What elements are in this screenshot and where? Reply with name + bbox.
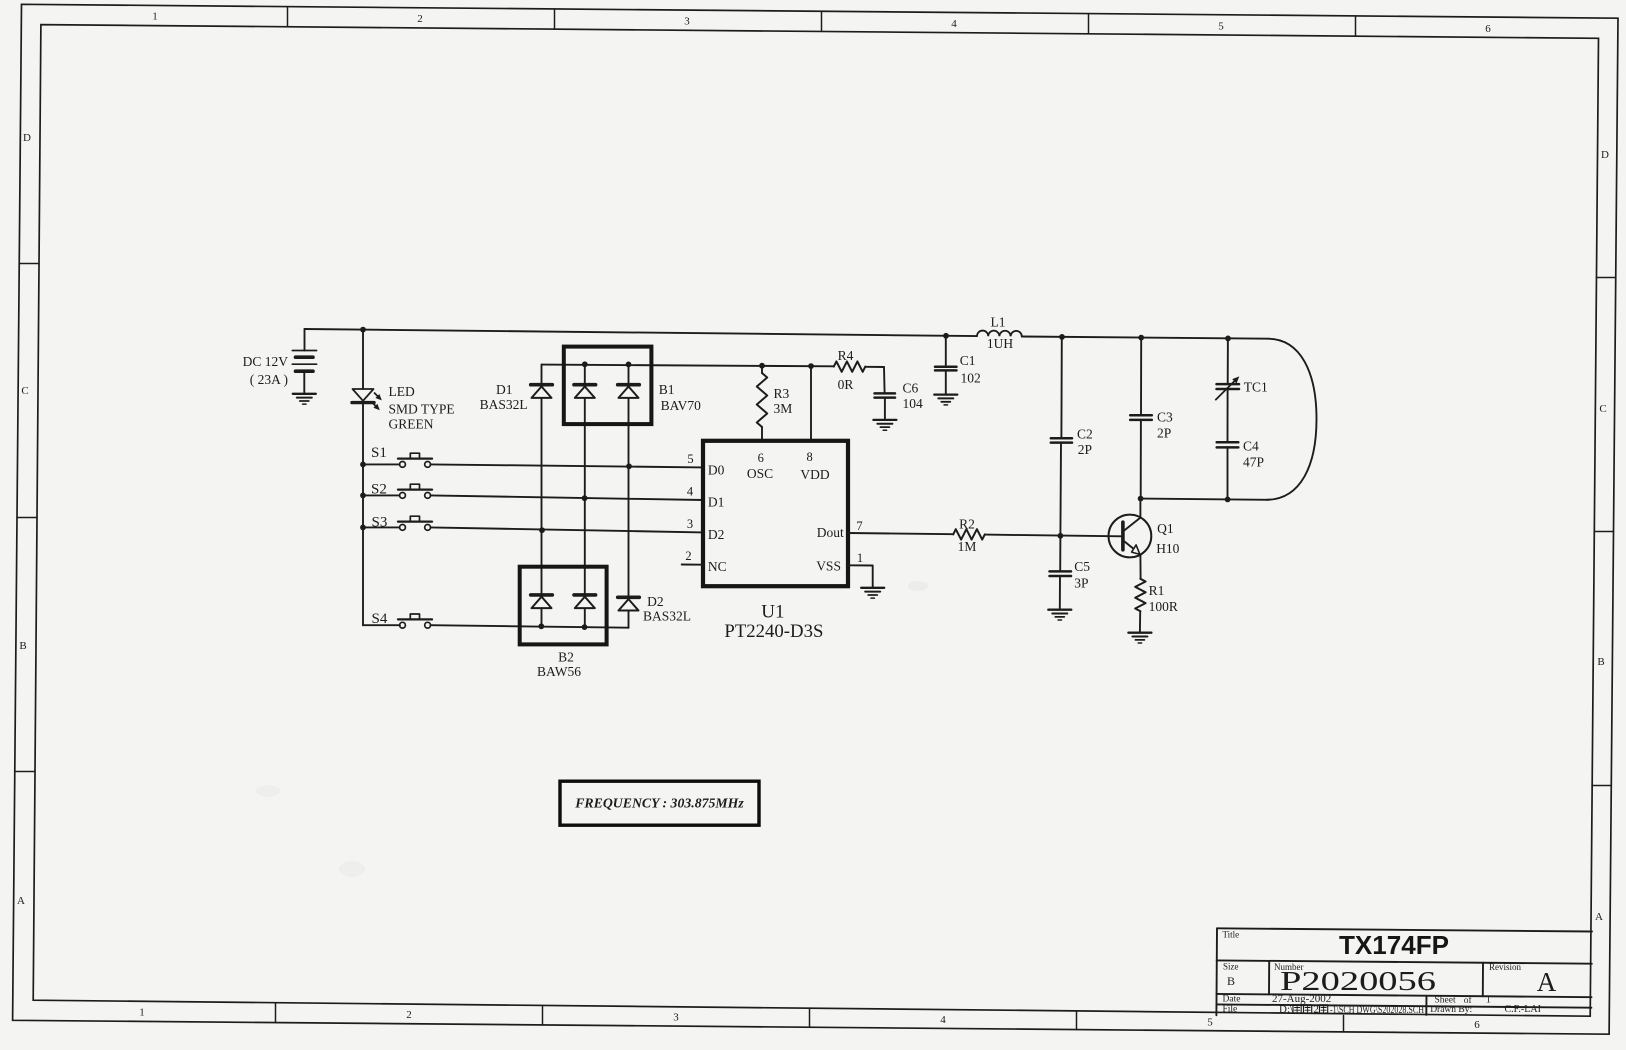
wire C2 top — [1060, 337, 1062, 438]
node S1 column junction — [626, 463, 632, 469]
node TC1 rail junction — [1225, 336, 1231, 342]
title block label Title — [1223, 930, 1240, 940]
svg-text:3P: 3P — [1074, 576, 1088, 591]
svg-text:TC1: TC1 — [1244, 380, 1268, 395]
svg-text:VDD: VDD — [800, 467, 829, 482]
pin 1 number — [857, 551, 863, 565]
pin name NC — [708, 559, 727, 574]
svg-text:D2: D2 — [647, 594, 664, 609]
svg-text:0R: 0R — [838, 377, 854, 392]
node R3 top — [759, 363, 765, 369]
label S2 — [371, 482, 387, 498]
svg-text:2: 2 — [406, 1009, 412, 1021]
pin name D1 — [708, 495, 725, 510]
svg-text:VSS: VSS — [816, 559, 841, 574]
wire S4 row — [431, 625, 629, 628]
svg-text:3M: 3M — [774, 401, 793, 416]
svg-text:1: 1 — [139, 1007, 145, 1019]
svg-text:S2: S2 — [371, 482, 387, 498]
node S1 tap — [360, 462, 366, 468]
title block label Number — [1274, 962, 1304, 972]
wire D1 to B2 — [541, 398, 543, 594]
node col-C top — [626, 362, 632, 368]
switch S1 — [398, 453, 432, 467]
wire B1 right column top — [628, 364, 630, 384]
svg-text:D2: D2 — [708, 527, 725, 542]
title block revision A — [1537, 967, 1557, 997]
svg-text:5: 5 — [687, 452, 693, 466]
frequency note box — [560, 781, 759, 825]
node col-B top — [582, 361, 588, 367]
pin 5 number — [687, 452, 693, 466]
diode D1 BAS32L — [531, 385, 553, 398]
wire VSS pin 1 — [848, 565, 873, 587]
svg-text:SMD TYPE: SMD TYPE — [389, 402, 455, 417]
wire Dout — [848, 533, 953, 534]
battery DC 12V (23A) — [292, 329, 316, 394]
title block label File — [1223, 1005, 1238, 1015]
title block label Size — [1223, 962, 1239, 972]
label L1 — [987, 315, 1013, 351]
node battery-LED junction — [360, 327, 366, 333]
label D2 — [643, 594, 691, 624]
svg-text:D0: D0 — [708, 462, 725, 477]
op-amp U1 box — [703, 441, 848, 586]
capacitor C5 3P — [1050, 571, 1072, 576]
svg-text:D: D — [1601, 149, 1609, 161]
svg-text:D: D — [23, 132, 31, 144]
node S4-B2left junction — [538, 623, 544, 629]
wire C3 top — [1140, 338, 1142, 415]
svg-text:2P: 2P — [1157, 426, 1171, 441]
svg-text:4: 4 — [940, 1014, 946, 1026]
svg-text:2: 2 — [417, 13, 423, 25]
svg-text:6: 6 — [1485, 23, 1491, 35]
svg-text:R3: R3 — [774, 386, 790, 401]
svg-text:U1: U1 — [761, 602, 784, 623]
svg-text:C6: C6 — [903, 381, 919, 396]
wire R1 bottom — [1139, 611, 1141, 632]
title block date value — [1272, 993, 1331, 1005]
label C3 — [1157, 410, 1173, 441]
wire NC stub — [682, 564, 703, 566]
svg-text:R1: R1 — [1149, 583, 1165, 598]
node S4-B2right junction — [582, 624, 588, 630]
ground battery — [293, 394, 316, 404]
svg-text:LED: LED — [389, 384, 415, 399]
ground C5 — [1048, 610, 1071, 620]
svg-text:Dout: Dout — [817, 525, 844, 540]
LED label — [389, 384, 455, 432]
node C2 rail junction — [1059, 334, 1065, 340]
svg-text:3: 3 — [673, 1012, 679, 1024]
label C5 — [1074, 559, 1090, 590]
battery label ( 23A ) — [250, 372, 288, 387]
svg-text:C: C — [1599, 403, 1606, 415]
switch S3 — [398, 516, 432, 530]
ground R1 — [1128, 633, 1151, 643]
wire S2 to pin D1 — [431, 495, 704, 500]
pin 3 number — [687, 517, 693, 531]
svg-text:1UH: 1UH — [987, 336, 1013, 351]
wire S3 to pin D2 — [431, 527, 704, 532]
svg-text:C5: C5 — [1074, 559, 1090, 574]
wire R2 to Q1 base — [985, 535, 1122, 537]
label C6 — [903, 381, 924, 412]
svg-text:6: 6 — [1474, 1019, 1480, 1031]
label C1 — [960, 353, 981, 386]
box B2 BAW56 — [520, 567, 607, 645]
pin name Dout — [817, 525, 844, 540]
svg-text:Drawn By:: Drawn By: — [1430, 1005, 1472, 1015]
node S2 column junction — [582, 495, 588, 501]
svg-text:D:\: D:\ — [1279, 1004, 1294, 1016]
title TX174FP — [1339, 930, 1449, 960]
label C2 — [1077, 427, 1093, 457]
svg-text:BAS32L: BAS32L — [480, 397, 528, 412]
wire R3 to OSC pin 6 — [761, 427, 763, 441]
wire B1 left column top — [584, 364, 586, 384]
label B1 — [659, 382, 701, 413]
title block file value — [1279, 1004, 1424, 1016]
label PT2240-D3S — [724, 622, 823, 642]
label S3 — [372, 515, 388, 531]
svg-text:H10: H10 — [1156, 541, 1179, 556]
svg-text:BAS32L: BAS32L — [643, 609, 691, 624]
antenna loop arc — [1267, 339, 1317, 500]
trimmer capacitor TC1 — [1216, 376, 1240, 399]
svg-text:B: B — [1597, 656, 1604, 668]
svg-text:C.F.-LAI: C.F.-LAI — [1505, 1004, 1541, 1015]
wire VCC top rail left — [305, 329, 978, 336]
pin 6 number — [758, 451, 764, 465]
svg-text:C1: C1 — [960, 353, 976, 368]
wire C1 top — [945, 336, 947, 367]
node S3 column junction — [539, 527, 545, 533]
resistor R2 1M — [953, 529, 985, 539]
label TC1 — [1244, 380, 1268, 395]
wire B1-left to B2-right — [584, 398, 586, 594]
svg-text:1: 1 — [1486, 995, 1491, 1006]
wire S2 left — [363, 494, 400, 496]
scan smudge artifacts — [256, 581, 928, 877]
svg-text:2: 2 — [1314, 1004, 1320, 1016]
capacitor C1 102 — [935, 367, 957, 371]
wire B1-right to D2 — [628, 398, 630, 597]
label R1 — [1149, 583, 1178, 614]
title block label Drawn By — [1430, 1005, 1472, 1015]
svg-text:104: 104 — [903, 396, 924, 411]
svg-text:( 23A ): ( 23A ) — [250, 372, 288, 387]
wire TC1 to C4 — [1227, 389, 1229, 442]
svg-text:4: 4 — [687, 485, 694, 499]
label R4 — [838, 348, 854, 392]
wire R3 top — [761, 366, 763, 373]
pin name VDD — [800, 467, 829, 482]
node C1 rail junction — [943, 333, 949, 339]
label C4 — [1243, 439, 1264, 470]
wire C5 top — [1059, 536, 1061, 571]
wire TC1 top — [1227, 338, 1229, 384]
svg-text:C: C — [21, 385, 28, 397]
wire B2 right anode — [584, 608, 586, 627]
wire B2 left anode — [541, 608, 543, 626]
switch S4 — [398, 614, 432, 628]
title block label Date — [1223, 995, 1241, 1005]
title block label Revision — [1489, 962, 1522, 972]
diode B2 right — [574, 595, 596, 608]
svg-text:2P: 2P — [1078, 442, 1092, 457]
svg-text:S3: S3 — [372, 515, 388, 531]
node C3 rail junction — [1138, 335, 1144, 341]
svg-text:1: 1 — [857, 551, 863, 565]
svg-text:S1: S1 — [371, 445, 387, 461]
diode B1 right — [618, 385, 640, 398]
svg-text:100R: 100R — [1149, 599, 1178, 614]
svg-text:BAW56: BAW56 — [537, 664, 581, 679]
wire left rail vertical — [363, 404, 400, 625]
svg-text:Revision: Revision — [1489, 962, 1522, 972]
svg-text:BAV70: BAV70 — [661, 398, 702, 413]
svg-text:B1: B1 — [659, 382, 675, 397]
svg-text:Size: Size — [1223, 962, 1239, 972]
svg-text:R4: R4 — [838, 348, 854, 363]
pin name VSS — [816, 559, 841, 574]
svg-text:of: of — [1464, 995, 1473, 1006]
pin 7 number — [856, 519, 862, 533]
svg-text:1M: 1M — [958, 539, 977, 554]
svg-text:NC: NC — [708, 559, 727, 574]
title block size B — [1227, 974, 1235, 988]
svg-text:47P: 47P — [1243, 455, 1264, 470]
wire C1 bottom — [945, 371, 947, 395]
svg-text:D1: D1 — [496, 382, 513, 397]
label S1 — [371, 445, 387, 461]
svg-text:-1\SCH DWG\S202028.SCH: -1\SCH DWG\S202028.SCH — [1330, 1004, 1424, 1016]
wire rail after L1 — [1022, 337, 1269, 339]
svg-text:File: File — [1223, 1005, 1238, 1015]
label U1 — [761, 602, 784, 623]
pin 2 number — [685, 549, 691, 563]
diode B2 left — [531, 595, 553, 608]
svg-text:L1: L1 — [991, 315, 1006, 330]
wire R4 to C6 — [865, 367, 884, 393]
inductor L1 1UH — [977, 331, 1022, 337]
node VDD top — [808, 363, 814, 369]
svg-text:TX174FP: TX174FP — [1339, 930, 1449, 960]
label S4 — [372, 611, 388, 627]
ground VSS — [861, 588, 884, 598]
wire C3 bottom — [1140, 420, 1142, 498]
wire VDD pin 8 — [810, 366, 812, 441]
battery label DC 12V — [243, 354, 289, 369]
diode B1 left — [574, 385, 596, 398]
label Q1 — [1156, 521, 1179, 556]
wire C6 bottom — [884, 398, 886, 420]
resistor R4 0R — [834, 361, 866, 371]
wire data wire y365 — [542, 365, 834, 367]
svg-text:FREQUENCY : 303.875MHz: FREQUENCY : 303.875MHz — [574, 796, 744, 811]
pin name D0 — [708, 462, 725, 477]
svg-text:2: 2 — [685, 549, 691, 563]
capacitor C3 2P — [1130, 415, 1152, 420]
svg-text:R2: R2 — [959, 516, 975, 531]
svg-text:C4: C4 — [1243, 439, 1259, 454]
wire C5 bottom — [1059, 576, 1061, 609]
svg-text:5: 5 — [1218, 21, 1224, 33]
svg-text:C3: C3 — [1157, 410, 1173, 425]
pin 4 number — [687, 485, 694, 499]
svg-text:Q1: Q1 — [1157, 521, 1174, 536]
capacitor C6 104 — [875, 393, 896, 397]
pin name D2 — [708, 527, 725, 542]
node base junction — [1058, 533, 1064, 539]
diode D2 BAS32L — [618, 597, 640, 610]
svg-text:A: A — [1537, 967, 1557, 997]
svg-text:Date: Date — [1223, 995, 1241, 1005]
label R3 — [774, 386, 793, 416]
switch S2 — [398, 484, 432, 498]
svg-text:Title: Title — [1223, 930, 1240, 940]
wire S1 to pin D0 — [431, 464, 704, 467]
svg-text:5: 5 — [1207, 1017, 1213, 1029]
svg-text:B2: B2 — [558, 650, 574, 665]
svg-text:3: 3 — [687, 517, 693, 531]
svg-text:6: 6 — [758, 451, 764, 465]
frequency note text — [574, 796, 744, 811]
svg-text:P2020056: P2020056 — [1280, 966, 1436, 996]
capacitor C4 47P — [1217, 442, 1239, 447]
title block number P2020056 — [1280, 966, 1436, 996]
pin 8 number — [806, 450, 812, 464]
label B2 — [537, 650, 581, 680]
node TC1 bottom junction — [1225, 497, 1231, 503]
wire tank bottom — [1141, 499, 1269, 500]
title block frame — [1216, 928, 1592, 1015]
ground C6 — [873, 420, 896, 430]
label R2 — [958, 516, 977, 554]
resistor R3 3M — [757, 373, 767, 427]
node S3 tap — [360, 525, 366, 531]
ground C1 — [934, 395, 957, 405]
svg-text:8: 8 — [806, 450, 812, 464]
svg-text:B: B — [19, 640, 26, 652]
title block label Sheet of — [1435, 995, 1491, 1006]
capacitor C2 2P — [1051, 438, 1072, 442]
wire C4 bottom — [1227, 448, 1229, 500]
wire D1 column top — [541, 365, 543, 385]
svg-text:Sheet: Sheet — [1435, 996, 1456, 1006]
LED D? SMD green — [352, 330, 382, 411]
transistor Q1 H10 — [1109, 499, 1152, 579]
svg-text:A: A — [1595, 911, 1603, 923]
svg-text:A: A — [17, 895, 25, 907]
svg-text:102: 102 — [961, 371, 981, 386]
resistor R1 100R — [1135, 579, 1145, 611]
svg-text:B: B — [1227, 974, 1235, 988]
svg-text:4: 4 — [951, 18, 957, 30]
svg-text:PT2240-D3S: PT2240-D3S — [724, 622, 823, 642]
svg-text:C2: C2 — [1077, 427, 1093, 442]
svg-text:DC 12V: DC 12V — [243, 354, 289, 369]
wire D2 anode — [628, 611, 630, 628]
node collector junction — [1138, 496, 1144, 502]
box B1 BAV70 — [564, 347, 652, 425]
svg-text:S4: S4 — [372, 611, 388, 627]
svg-text:7: 7 — [856, 519, 862, 533]
svg-text:3: 3 — [684, 16, 690, 28]
pin name OSC — [747, 466, 773, 481]
svg-text:1: 1 — [152, 11, 158, 23]
label D1 — [480, 382, 528, 412]
title block drawn by value — [1505, 1004, 1541, 1015]
wire C2 bottom — [1059, 443, 1062, 536]
wire S1 left — [363, 463, 400, 465]
node S2 tap — [360, 493, 366, 499]
svg-text:D1: D1 — [708, 495, 725, 510]
svg-text:GREEN: GREEN — [389, 417, 434, 432]
wire S3 left — [363, 526, 400, 528]
svg-text:OSC: OSC — [747, 466, 773, 481]
